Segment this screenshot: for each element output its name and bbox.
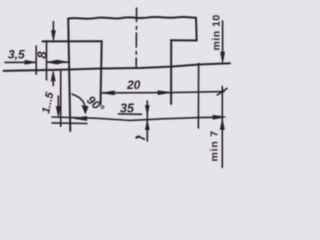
svg-text:min 7: min 7 xyxy=(209,130,221,161)
svg-text:8: 8 xyxy=(34,51,49,59)
extension V1 xyxy=(60,71,62,127)
dim 35 left arrow xyxy=(74,116,87,120)
svg-text:min 10: min 10 xyxy=(211,14,223,50)
short lower line xyxy=(52,122,87,125)
main line E xyxy=(4,63,231,71)
dim 20 line xyxy=(101,92,224,93)
svg-text:35: 35 xyxy=(120,102,135,116)
left notch horizontal C xyxy=(43,40,102,42)
90 deg arc leader xyxy=(72,94,86,111)
dim 3,5 line xyxy=(5,61,68,63)
right notch horizontal G xyxy=(171,39,197,41)
top hat break line A xyxy=(68,17,196,19)
dim 1 lower arrowhead xyxy=(145,121,149,130)
dim 1 upper arrowhead xyxy=(145,106,149,115)
dim 35 right arrow xyxy=(213,115,226,119)
left notch vertical D with 20-dim extension xyxy=(101,41,102,104)
dim 35 long line xyxy=(52,117,223,120)
right leg H xyxy=(195,18,198,41)
right notch vertical F with 20-dim extension xyxy=(170,40,172,104)
extension line I xyxy=(35,46,37,74)
left leg B with extension below main line xyxy=(68,18,70,131)
dim 20 left arrow xyxy=(101,91,114,95)
label 1 glyph xyxy=(136,136,139,137)
dim 8 top arrow K xyxy=(52,22,54,34)
svg-text:90°: 90° xyxy=(84,93,107,116)
dim 20 right arrow xyxy=(158,91,171,95)
svg-text:20: 20 xyxy=(126,78,141,92)
dim 1 shaft xyxy=(146,101,148,141)
min7 slash tick xyxy=(217,88,227,95)
dim 3,5 left arrow xyxy=(25,60,36,64)
dim 3,5 right arrow xyxy=(46,60,57,64)
min10 arrow xyxy=(222,21,224,53)
min7 shaft and up arrow xyxy=(221,87,223,168)
right extension under leg xyxy=(197,63,199,128)
dim 3,5 extra right arrowhead xyxy=(58,60,68,64)
center line xyxy=(135,8,137,68)
svg-text:3,5: 3,5 xyxy=(8,48,25,62)
extension line J xyxy=(46,41,48,80)
dim 8 bottom arrow L xyxy=(52,79,54,86)
svg-text:1...5: 1...5 xyxy=(40,90,56,114)
35 underline xyxy=(119,113,142,115)
dim 1...5 down arrow xyxy=(57,96,59,108)
